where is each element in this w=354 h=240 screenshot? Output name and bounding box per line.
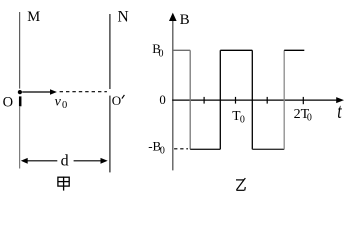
dimension arrowhead right (101, 158, 108, 164)
plate line N lower segment (109, 96, 111, 173)
svg-text:0: 0 (159, 93, 165, 107)
wave rising edge at 7T0/4 (283, 50, 285, 149)
wave high segment 1 (173, 49, 190, 51)
svg-text:d: d (61, 153, 69, 170)
svg-text:M: M (27, 9, 40, 25)
axis tick at T0 (235, 97, 237, 104)
svg-text:B: B (180, 12, 190, 28)
svg-text:0: 0 (62, 100, 67, 111)
svg-text:0: 0 (240, 114, 245, 125)
wave falling edge at 5T0/4 (251, 50, 253, 149)
dashes at -B0 level (174, 148, 188, 150)
axis tick at 3T0/2 (266, 97, 268, 104)
wave falling edge at T0/4 (189, 50, 191, 149)
dimension line left segment (28, 160, 58, 162)
svg-text:N: N (118, 8, 129, 25)
svg-text:v: v (55, 94, 62, 109)
t axis line (172, 99, 337, 101)
prime mark of O' (122, 95, 125, 99)
svg-text:0: 0 (159, 49, 164, 60)
particle dot at O (18, 90, 22, 94)
velocity arrow shaft (22, 91, 50, 93)
plate line M upper segment (19, 12, 21, 89)
wave high segment 3 (284, 49, 304, 51)
svg-text:0: 0 (160, 146, 165, 157)
svg-text:O: O (3, 94, 13, 110)
wave low segment 2 (252, 148, 284, 150)
plate line M lower segment (19, 106, 21, 168)
axis tick at 2T0 (302, 97, 304, 104)
t axis arrowhead (336, 97, 344, 103)
label yi (CJK 乙) (236, 178, 245, 190)
plate line M thick segment below O (19, 96, 22, 106)
axis tick at T0/2 (203, 97, 205, 104)
B axis arrowhead (169, 13, 177, 21)
wave rising edge at 3T0/4 (219, 50, 221, 149)
wave low segment 1 (190, 148, 220, 150)
dashed line from O to O' (60, 91, 107, 93)
svg-text:O: O (112, 93, 121, 108)
dimension line right segment (74, 160, 101, 162)
svg-text:t: t (337, 100, 342, 124)
wave high segment 2 (220, 49, 252, 51)
B axis vertical line (172, 20, 174, 171)
svg-text:0: 0 (307, 113, 312, 124)
label jia (CJK 甲) (58, 177, 69, 191)
velocity arrowhead (50, 89, 57, 95)
plate line N upper segment (109, 14, 111, 89)
dimension arrowhead left (21, 158, 28, 164)
